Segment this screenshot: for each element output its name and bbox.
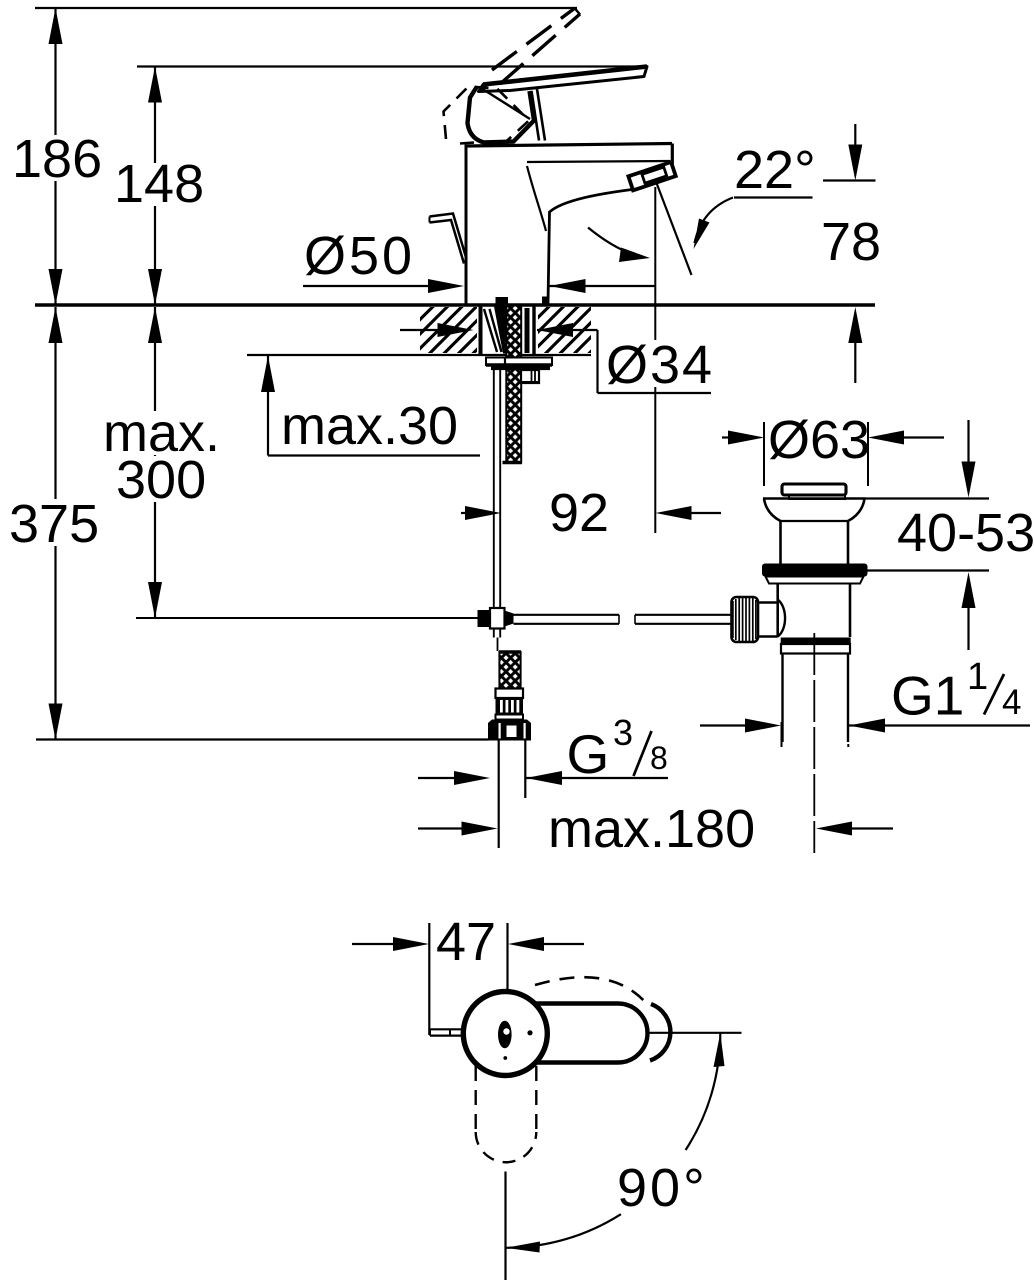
small dot right <box>527 1030 532 1035</box>
knurled knob <box>732 597 759 642</box>
drain neck sides <box>779 521 782 564</box>
mounting nut band <box>491 367 550 371</box>
drain pop-up cap under-plate <box>789 495 845 500</box>
rod connector block <box>478 610 491 627</box>
spout inner diagonal edge <box>527 166 546 231</box>
handle tab left <box>430 1028 464 1030</box>
O34 leader <box>596 330 598 393</box>
drain flange top <box>763 497 866 500</box>
svg-text:3: 3 <box>613 712 633 753</box>
svg-text:1: 1 <box>967 656 988 698</box>
dimension max300 line <box>154 307 156 618</box>
90deg arc upper <box>686 1033 721 1150</box>
dimension 148 line <box>154 67 156 306</box>
spout underside curve <box>548 189 636 304</box>
svg-text:Ø50: Ø50 <box>304 226 415 286</box>
22deg leader curve with arrow <box>695 198 734 244</box>
G3/8 nut <box>488 720 531 741</box>
hose ribbed band <box>496 698 524 715</box>
drain rubber seal <box>762 564 868 577</box>
label O34 <box>604 340 710 387</box>
reference line 148 level <box>137 65 642 67</box>
hub inner diagonal <box>481 88 530 119</box>
lever neck <box>532 91 540 141</box>
handle top-view dashed top arc <box>535 977 646 1003</box>
wedge clamp diagonals <box>484 309 497 352</box>
dimension O34 <box>400 329 444 331</box>
dimension 375 line <box>54 307 56 740</box>
dimension O63 <box>763 422 765 486</box>
svg-text:90°: 90° <box>617 1158 708 1218</box>
drain tailpipe <box>781 654 783 743</box>
22deg slant line <box>657 183 692 275</box>
label max300 <box>100 411 227 455</box>
90deg arc lower <box>506 1214 621 1248</box>
dimension G3/8 <box>418 777 460 779</box>
mounting washer <box>486 358 552 366</box>
small dot bottom <box>503 1056 507 1060</box>
G3/8 pipe below nut <box>498 741 500 849</box>
pull rod (vertical) <box>493 366 495 607</box>
svg-text:92: 92 <box>549 483 609 543</box>
drain centerline <box>813 633 815 853</box>
faucet body circle top view <box>463 992 547 1076</box>
svg-text:G: G <box>567 723 610 785</box>
drain flange trumpet sides <box>764 499 781 522</box>
hose thin white band <box>496 715 524 720</box>
hose tab <box>521 370 539 383</box>
lever blade dashed (raised) <box>492 8 575 70</box>
seal lower white band <box>766 577 864 584</box>
90deg arc arrow left <box>506 1242 541 1253</box>
svg-text:G1: G1 <box>891 665 964 727</box>
handle stadium solid <box>500 1004 648 1063</box>
svg-text:186: 186 <box>12 129 102 189</box>
dimension 92 <box>654 187 656 533</box>
svg-text:148: 148 <box>114 154 204 214</box>
cartridge blob <box>498 1021 512 1049</box>
reference line top (186 level) <box>35 7 577 9</box>
svg-text:4: 4 <box>1002 683 1021 722</box>
svg-text:300: 300 <box>116 450 206 510</box>
lever blade solid <box>479 67 648 92</box>
svg-text:8: 8 <box>650 740 668 776</box>
drain body sides <box>776 584 779 638</box>
stem bulge into body <box>778 600 785 637</box>
svg-text:47: 47 <box>436 912 496 972</box>
faucet body top edge <box>465 144 673 147</box>
deck hole right edge <box>532 306 535 354</box>
hose centerline stub <box>497 638 499 652</box>
deck hole left edge <box>479 306 483 354</box>
hose crimp sleeve white band <box>496 689 524 699</box>
drain flange inner line <box>781 520 849 522</box>
svg-text:78: 78 <box>821 212 881 272</box>
22deg arc arrow <box>588 228 643 258</box>
horizontal reference line right <box>647 1032 742 1034</box>
dimension max180 <box>418 827 466 829</box>
countertop deck line <box>35 303 875 306</box>
drain black ring <box>781 638 851 644</box>
faucet spout right edge <box>671 144 674 175</box>
dashed handle down position <box>475 1066 477 1133</box>
reference line 375 bottom <box>36 738 489 740</box>
svg-text:Ø63: Ø63 <box>768 410 870 470</box>
svg-text:375: 375 <box>9 494 99 554</box>
reference line max300 bottom / pull rod line <box>136 617 478 619</box>
deck hatching right <box>538 307 591 353</box>
handle top-view second cap solid <box>650 1004 670 1061</box>
deck bottom line <box>247 354 591 356</box>
braid bottom cap <box>503 461 523 464</box>
lever hub solid <box>468 87 535 143</box>
shank right black bar <box>525 308 530 353</box>
dimension 47 <box>428 923 430 1035</box>
wedge black fill <box>494 307 506 354</box>
horizontal rod segment A <box>514 614 620 616</box>
svg-text:max.180: max.180 <box>548 799 755 859</box>
label 148 <box>112 163 202 206</box>
dimension max30 <box>267 356 269 456</box>
label 375 <box>6 499 104 546</box>
dimension 186 line <box>54 8 56 305</box>
drain pop-up cap <box>782 484 846 495</box>
supply hose braid lower <box>499 651 522 689</box>
svg-text:40-53: 40-53 <box>897 503 1034 563</box>
22deg reference line right <box>823 179 876 181</box>
horizontal rod segment B <box>635 614 732 616</box>
svg-text:Ø34: Ø34 <box>606 335 714 395</box>
spout inner top line <box>527 161 670 162</box>
deck hatching left <box>420 307 477 353</box>
aerator at spout tip <box>628 162 675 190</box>
svg-text:22°: 22° <box>734 140 816 200</box>
dimension G1 1/4 <box>781 722 783 747</box>
90deg arc arrow up <box>714 1033 725 1067</box>
vertical centerline bottom <box>504 1172 506 1280</box>
pull-rod knob hook left of body <box>430 214 467 260</box>
svg-text:max.30: max.30 <box>281 396 458 456</box>
base seal nub above deck <box>496 297 509 306</box>
22deg label baseline <box>734 196 813 198</box>
connector stub below <box>493 629 495 638</box>
label 186 <box>10 135 105 181</box>
drain white ring <box>781 644 850 654</box>
dimension O50 <box>303 285 436 287</box>
threaded shank braid <box>506 307 523 464</box>
dimension 78 <box>854 124 856 150</box>
faucet body left edge <box>465 146 468 304</box>
lever hub dashed (raised) <box>444 87 530 143</box>
dimension 40-53 <box>865 497 989 499</box>
knob stem <box>758 601 778 603</box>
